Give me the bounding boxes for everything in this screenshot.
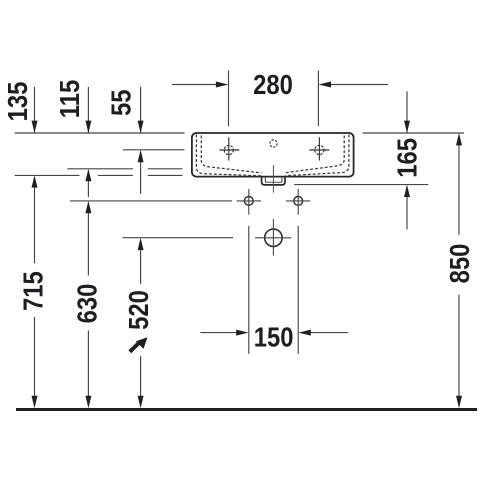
arrow 630 up [85,201,91,213]
arrow 165 down [404,121,410,133]
dim 715 line upper [34,186,36,263]
mounting hole right circle [294,197,303,206]
svg-text:150: 150 [254,321,294,353]
svg-text:850: 850 [443,244,475,284]
drain pipe cross [255,219,291,256]
dim 520 line upper [140,248,142,284]
basin centerline [272,165,274,193]
trap bottom level line right [294,184,428,186]
dim 280 leader left [172,84,222,86]
basin outer edge dashed left wall [196,135,261,176]
arrow 165 up [404,185,410,197]
dim 850 line lower [458,295,460,397]
basin outer edge dashed right wall [286,135,349,176]
arrow 115 down [85,121,91,133]
dim 850 line upper [458,145,460,236]
arrow 630 down at floor [85,396,91,408]
arrow 280 left [319,82,331,88]
135 level line seg c [148,174,183,176]
svg-text:165: 165 [391,138,423,178]
arrow 55 down [138,121,144,133]
svg-text:55: 55 [105,90,137,116]
basin inner edge dashed right wall [285,136,344,173]
basin inner edge dashed left wall [201,136,261,173]
mounting holes level line [70,200,232,202]
dim 115 tail [87,180,89,197]
arrow 55 up [138,150,144,162]
rim level line right [363,132,464,134]
leader arrow for 520 [130,337,148,352]
tap hole right dashed circle [315,145,324,154]
dim 150 leader left [200,332,242,334]
arrow 520 up [138,238,144,250]
arrow 715 down at floor [32,396,38,408]
tap hole right cross [309,137,329,160]
dim 150 leader right [305,332,348,334]
dim 280 extension line left [228,71,230,127]
dim 135 line [34,87,36,133]
svg-text:520: 520 [122,290,154,330]
arrow 850 up [456,133,462,145]
rim level line left [15,132,185,134]
mounting hole right cross [286,189,310,215]
tap hole level line [123,149,185,151]
135 level line seg b [98,174,133,176]
drain level line [123,237,234,239]
mounting hole left circle [244,197,253,206]
115 level line seg a [67,168,133,170]
arrow 280 right [216,82,228,88]
svg-text:115: 115 [53,80,85,118]
arrow 115 up [85,169,91,181]
drain trap inner edge left [264,177,266,182]
dim 55 line [140,87,142,133]
tap hole left dashed circle [224,145,233,154]
svg-text:280: 280 [253,68,293,100]
dim 630 line upper [87,212,89,276]
svg-text:630: 630 [71,284,103,324]
arrow 150 left [298,330,310,336]
washbasin outline [192,133,354,177]
dim 165 line upper [406,91,408,133]
115 level line seg b [148,168,183,170]
tap hole left cross [219,137,239,160]
135 level line seg a [15,174,80,176]
dim 520 line lower [140,356,142,397]
dim 150 extension line right [297,226,299,354]
floor line [16,408,477,411]
dim 165 line lower [406,195,408,230]
dim 115 line [87,87,89,133]
svg-text:715: 715 [17,271,49,311]
arrow 715 up [32,175,38,187]
drain pipe circle [265,229,283,247]
dim 630 line lower [87,331,89,398]
mounting hole left cross [237,189,261,215]
svg-text:135: 135 [1,82,33,122]
overflow hole dashed circle [270,140,277,147]
drain hole bottom line [265,181,282,183]
arrow 135 down [32,121,38,133]
arrow 520 down at floor [138,396,144,408]
dim 280 leader right [325,84,388,86]
arrow 150 right [236,330,248,336]
dim 150 extension line left [248,226,250,354]
drain trap inner edge right [281,177,283,182]
arrow 850 down at floor [456,396,462,408]
dim 55 tail [140,162,142,194]
dim 715 line lower [34,317,36,397]
dim 280 extension line right [317,71,319,127]
drain trap outline [262,177,285,185]
